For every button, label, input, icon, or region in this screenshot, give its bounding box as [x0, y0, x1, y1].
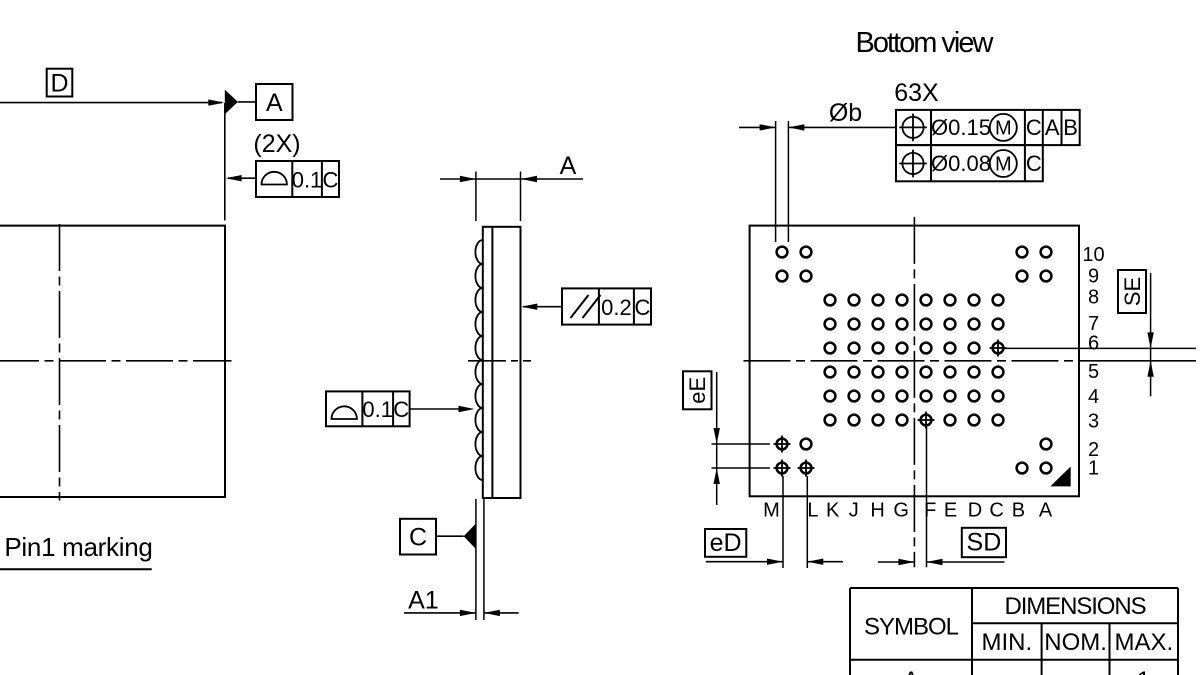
- svg-text:1: 1: [1088, 458, 1099, 480]
- ball D8: [969, 295, 980, 306]
- svg-text:Ø0.15: Ø0.15: [931, 115, 991, 140]
- svg-text:J: J: [849, 500, 859, 522]
- eD label box: [705, 529, 746, 557]
- svg-text:C: C: [409, 524, 427, 552]
- svg-text:NOM.: NOM.: [1044, 629, 1107, 656]
- ball D3: [969, 415, 980, 426]
- position tolerance frame row 1: [896, 110, 1080, 145]
- ball G8: [897, 295, 908, 306]
- ball F8: [921, 295, 932, 306]
- SE dimension line: [1150, 273, 1152, 396]
- dimension D arrowhead: [208, 99, 224, 105]
- parallelism arrowhead: [521, 304, 537, 310]
- eE lower leader line: [712, 467, 771, 469]
- SE leader line: [1004, 347, 1196, 349]
- package bottom extension line: [483, 499, 485, 620]
- svg-text:3: 3: [1088, 410, 1099, 432]
- dimension A right arrowhead: [521, 176, 537, 182]
- svg-text:A: A: [560, 152, 577, 180]
- dimension D leader line: [0, 102, 222, 104]
- seating plane extension line: [475, 499, 477, 620]
- material condition M row 1: [990, 114, 1017, 141]
- eD left arrowhead: [767, 559, 783, 565]
- svg-text:Ø0.08: Ø0.08: [931, 151, 991, 176]
- svg-text:Bottom view: Bottom view: [856, 27, 995, 59]
- side view package outline: [483, 227, 521, 498]
- ball L9: [801, 271, 812, 282]
- svg-text:A: A: [1045, 115, 1060, 140]
- svg-text:M: M: [995, 118, 1012, 140]
- ball B9: [1017, 271, 1028, 282]
- ball M9: [777, 271, 788, 282]
- ball H3: [873, 415, 884, 426]
- bottom view horizontal centerline: [744, 360, 1086, 362]
- profile tolerance frame 0.1 C (side): [326, 391, 410, 426]
- ball F3 (datum target): [918, 412, 935, 429]
- svg-text:A1: A1: [408, 587, 439, 615]
- SE label box: [1118, 270, 1146, 313]
- eE dimension line: [716, 372, 718, 505]
- svg-text:63X: 63X: [894, 79, 939, 107]
- ball diameter dim line right: [788, 126, 896, 128]
- dimensions table grid: [850, 587, 1178, 589]
- ball J4: [849, 391, 860, 402]
- svg-text:4: 4: [1088, 386, 1099, 408]
- svg-text:C: C: [635, 295, 651, 320]
- svg-text:MAX.: MAX.: [1114, 629, 1173, 656]
- datum A box: [256, 84, 293, 120]
- svg-text:eE: eE: [685, 377, 710, 404]
- eE label box: [683, 371, 712, 409]
- ball M2 (datum target): [774, 436, 791, 453]
- ball J6: [849, 343, 860, 354]
- ball diameter left extension line: [775, 121, 777, 242]
- SE lower arrowhead: [1147, 361, 1153, 377]
- ball A2: [1041, 439, 1052, 450]
- ball F4: [921, 391, 932, 402]
- ball C7: [993, 319, 1004, 330]
- dimension A right extension line: [520, 172, 522, 222]
- front frame leader: [228, 177, 256, 179]
- pin 1 marking underline: [0, 568, 152, 570]
- ball K5: [825, 367, 836, 378]
- svg-text:C: C: [1026, 115, 1042, 140]
- profile of surface symbol (front frame): [262, 172, 287, 185]
- side view solder ball row 2: [475, 432, 482, 456]
- svg-text:D: D: [50, 70, 68, 98]
- svg-text:M: M: [763, 500, 780, 522]
- ball E5: [945, 367, 956, 378]
- ball H5: [873, 367, 884, 378]
- ball C5: [993, 367, 1004, 378]
- dimension A tail: [521, 178, 583, 180]
- svg-text:Øb: Øb: [829, 99, 862, 127]
- pin 1 index triangle: [1050, 467, 1070, 487]
- svg-text:0.1: 0.1: [292, 168, 323, 193]
- ball E6: [945, 343, 956, 354]
- parallelism tolerance frame 0.2 C: [562, 288, 651, 324]
- svg-text:K: K: [826, 500, 840, 522]
- position tolerance frame row 2: [896, 145, 1043, 181]
- ball D7: [969, 319, 980, 330]
- side view solder ball row 3: [475, 408, 482, 432]
- ball J7: [849, 319, 860, 330]
- front frame arrowhead: [226, 175, 242, 181]
- parallelism symbol: [571, 295, 589, 318]
- ball E4: [945, 391, 956, 402]
- svg-text:10: 10: [1082, 244, 1104, 266]
- side view solder ball row 1: [475, 456, 482, 480]
- ball A9: [1041, 271, 1052, 282]
- ball G3: [897, 415, 908, 426]
- svg-text:G: G: [893, 500, 909, 522]
- datum A leader: [238, 101, 256, 103]
- side view solder ball row 6: [475, 336, 482, 360]
- svg-text:C: C: [393, 397, 409, 422]
- position symbol row 2: [899, 150, 927, 178]
- ball D4: [969, 391, 980, 402]
- svg-text:eD: eD: [710, 529, 742, 557]
- side view solder ball row 10: [475, 240, 482, 264]
- svg-text:1: 1: [1137, 667, 1150, 675]
- svg-text:C: C: [323, 168, 339, 193]
- ball D5: [969, 367, 980, 378]
- svg-text:E: E: [944, 500, 957, 522]
- ball C4: [993, 391, 1004, 402]
- ball J5: [849, 367, 860, 378]
- eE upper leader line: [712, 443, 771, 445]
- eD dim line left: [706, 561, 783, 563]
- ball C3: [993, 415, 1004, 426]
- ball H7: [873, 319, 884, 330]
- ball K7: [825, 319, 836, 330]
- ball E8: [945, 295, 956, 306]
- svg-text:B: B: [1012, 500, 1025, 522]
- datum A extension line: [224, 103, 226, 220]
- svg-text:SYMBOL: SYMBOL: [864, 614, 959, 641]
- bottom view centerline extension (SE): [1085, 360, 1196, 362]
- svg-text:MIN.: MIN.: [981, 629, 1032, 656]
- ball K8: [825, 295, 836, 306]
- SE upper arrowhead: [1147, 332, 1153, 348]
- svg-text:0.2: 0.2: [601, 295, 632, 320]
- svg-text:M: M: [995, 154, 1012, 176]
- dimension D label box: [47, 69, 73, 97]
- dimension A1 left line: [404, 612, 476, 614]
- ball L2: [801, 439, 812, 450]
- front view package outline: [0, 226, 225, 497]
- front view horizontal centerline: [0, 360, 232, 362]
- svg-text:6: 6: [1088, 332, 1099, 354]
- material condition M row 2: [990, 150, 1017, 177]
- dimension A left arrowhead: [460, 176, 476, 182]
- ball K6: [825, 343, 836, 354]
- front view vertical centerline: [59, 224, 61, 501]
- dimension A1 left arrowhead: [460, 610, 476, 616]
- side frame arrowhead: [459, 406, 475, 412]
- datum C triangle: [464, 524, 476, 549]
- ball M10: [777, 247, 788, 258]
- svg-text:5: 5: [1088, 361, 1099, 383]
- parallelism leader: [523, 306, 562, 308]
- eE upper arrowhead: [714, 428, 720, 444]
- ball J8: [849, 295, 860, 306]
- ball B1: [1017, 463, 1028, 474]
- datum A triangle: [225, 90, 238, 115]
- side view solder ball row 8: [475, 288, 482, 312]
- ball D6: [969, 343, 980, 354]
- ball F6: [921, 343, 932, 354]
- dimension A line: [440, 178, 521, 180]
- SD left arrowhead: [898, 559, 914, 565]
- datum C leader: [436, 535, 464, 537]
- svg-text:0.1: 0.1: [362, 397, 393, 422]
- svg-text:C: C: [989, 500, 1003, 522]
- svg-text:A: A: [266, 89, 283, 117]
- ball J3: [849, 415, 860, 426]
- ball L1 (datum target): [798, 460, 815, 477]
- ball F5: [921, 367, 932, 378]
- eD right extension line: [806, 476, 808, 568]
- SD extension line: [926, 427, 928, 567]
- ball G7: [897, 319, 908, 330]
- svg-text:Pin1 marking: Pin1 marking: [4, 532, 152, 562]
- ball E7: [945, 319, 956, 330]
- side view solder ball row 5: [475, 360, 482, 384]
- ball H8: [873, 295, 884, 306]
- svg-text:8: 8: [1088, 287, 1099, 309]
- position symbol row 1: [899, 114, 927, 142]
- ball H6: [873, 343, 884, 354]
- ball G4: [897, 391, 908, 402]
- SD label box: [962, 528, 1006, 557]
- bottom view vertical centerline: [913, 217, 915, 567]
- eE lower arrowhead: [714, 468, 720, 484]
- svg-text:A: A: [1039, 500, 1053, 522]
- SD dim line right: [927, 561, 1005, 563]
- eD left extension line: [782, 476, 784, 568]
- eD right arrowhead: [807, 559, 823, 565]
- ball diameter right arrowhead: [788, 124, 804, 130]
- svg-text:9: 9: [1088, 265, 1099, 287]
- side frame leader: [410, 408, 459, 410]
- ball diameter right extension line: [787, 121, 789, 242]
- side view solder ball row 9: [475, 264, 482, 288]
- svg-text:B: B: [1063, 115, 1078, 140]
- ball M1 (datum target): [774, 460, 791, 477]
- ball F7: [921, 319, 932, 330]
- side view substrate line: [491, 227, 493, 498]
- dimension A left extension line: [475, 172, 477, 222]
- bottom view package outline: [750, 226, 1079, 497]
- svg-text:SD: SD: [967, 529, 1002, 557]
- ball A1: [1041, 463, 1052, 474]
- svg-text:C: C: [1026, 151, 1042, 176]
- ball H4: [873, 391, 884, 402]
- ball G6: [897, 343, 908, 354]
- side view solder ball row 7: [475, 312, 482, 336]
- datum C box: [400, 519, 436, 555]
- profile of surface symbol (side frame): [332, 406, 357, 419]
- svg-text:DIMENSIONS: DIMENSIONS: [1004, 593, 1145, 620]
- SD right arrowhead: [927, 559, 943, 565]
- ball C8: [993, 295, 1004, 306]
- ball K3: [825, 415, 836, 426]
- dimension A1 right arrowhead: [484, 610, 500, 616]
- ball C6 (datum target): [990, 340, 1007, 357]
- ball diameter left arrowhead: [760, 124, 776, 130]
- dimension A1 tail: [484, 612, 519, 614]
- ball B10: [1017, 247, 1028, 258]
- svg-text:SE: SE: [1120, 277, 1145, 306]
- svg-text:A: A: [903, 667, 919, 675]
- side view solder ball row 4: [475, 384, 482, 408]
- svg-text:(2X): (2X): [253, 130, 300, 158]
- svg-text:L: L: [807, 500, 818, 522]
- ball L10: [801, 247, 812, 258]
- ball diameter dim line left: [739, 126, 776, 128]
- profile tolerance frame 0.1 C (front): [256, 161, 339, 197]
- SD dim line left: [878, 561, 915, 563]
- ball G5: [897, 367, 908, 378]
- ball A10: [1041, 247, 1052, 258]
- svg-text:D: D: [968, 500, 982, 522]
- svg-text:H: H: [870, 500, 884, 522]
- ball E3: [945, 415, 956, 426]
- ball K4: [825, 391, 836, 402]
- eD dim line right: [807, 561, 843, 563]
- side view horizontal centerline: [468, 360, 531, 362]
